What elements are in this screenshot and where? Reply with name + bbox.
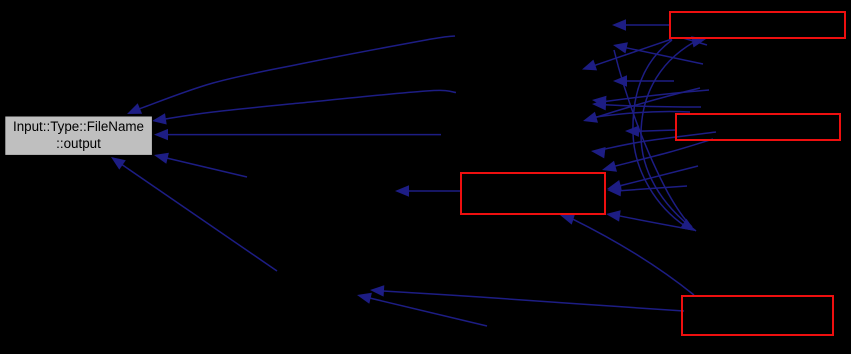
- svg-text:::output: ::output: [56, 136, 101, 151]
- svg-text:Input::Type::FileName: Input::Type::FileName: [13, 119, 144, 134]
